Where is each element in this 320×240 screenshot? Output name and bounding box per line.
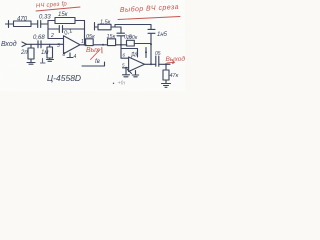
svg-text:fв: fв (95, 59, 100, 65)
power stub U2 (132, 71, 138, 77)
svg-text:Выход: Выход (166, 55, 186, 63)
feedback wires top row (48, 20, 85, 22)
svg-text:47к: 47к (170, 73, 179, 79)
resistor A (series, after U1) (86, 39, 94, 46)
svg-text:100к: 100к (127, 35, 138, 41)
riser to U2 inverting input (121, 45, 129, 58)
svg-text:4: 4 (74, 54, 77, 60)
wire to output (159, 63, 170, 65)
inner loop wire (122, 49, 138, 58)
ground (output) (162, 80, 171, 87)
op-amp U2 (129, 57, 145, 72)
svg-text:1: 1 (81, 39, 84, 45)
svg-text:Ц-4558D: Ц-4558D (47, 73, 81, 83)
resistor to ground (input shunt) (28, 48, 34, 59)
svg-text:15к: 15к (58, 12, 69, 18)
svg-text:470: 470 (17, 17, 28, 23)
svg-text:0,33: 0,33 (39, 15, 51, 21)
svg-text:0,68: 0,68 (33, 35, 45, 41)
power stub above U2 apex (145, 48, 147, 58)
node riser (inverting input column) (48, 21, 64, 39)
output wire U2 (145, 63, 156, 65)
svg-text:05к: 05к (86, 34, 95, 40)
bottom rail (82, 62, 105, 66)
resistor 15к (feedback) (55, 18, 75, 24)
capacitor (parallel with 15к) (48, 26, 85, 33)
red underline (top-left) (36, 7, 80, 11)
svg-text:2п: 2п (20, 50, 28, 56)
red tick after Вых (101, 48, 103, 54)
svg-text:1,5к: 1,5к (100, 20, 111, 26)
feedback top wire (1н5 branch) (115, 25, 151, 30)
capacitor 0,5 (vertical) (117, 33, 125, 45)
svg-text:1м: 1м (41, 50, 48, 56)
pin 5 wire (123, 67, 129, 69)
red slash (91, 50, 101, 60)
resistor 47к (output shunt) (165, 64, 167, 70)
wire (31, 23, 38, 25)
ground (pin 5) (123, 68, 130, 77)
resistor 1м (bias shunt) (47, 47, 53, 58)
node terminal (left of R 470) (6, 21, 14, 28)
wire and riser to cap (111, 27, 121, 33)
svg-text:8: 8 (63, 52, 66, 58)
svg-text:Вых: Вых (86, 47, 100, 54)
feedback right riser (84, 21, 86, 46)
ground (bias shunt) (47, 58, 54, 61)
wire (93, 44, 107, 46)
svg-text:2: 2 (50, 33, 54, 39)
stray dot (113, 83, 114, 84)
output wire of U1 (80, 44, 86, 46)
resistor 470 (14, 21, 32, 27)
capacitor 1н5 (148, 29, 155, 64)
paper background (0, 0, 185, 91)
input wire (27, 43, 64, 45)
capacitor 0,33 (38, 21, 41, 28)
ground (input shunt) (27, 59, 35, 64)
red arrow under Выход (167, 61, 175, 64)
stray marks (41, 59, 46, 64)
svg-text:Вход: Вход (1, 40, 17, 48)
svg-text:15к: 15к (107, 34, 116, 40)
terminal bar (branch of 1,5к row) (95, 23, 99, 31)
stray tick (128, 70, 132, 74)
svg-text:05: 05 (155, 51, 161, 57)
resistor 100к (feedback) (127, 40, 135, 46)
red underline (top-right) (118, 17, 180, 20)
capacitor 0,5 output (156, 56, 159, 66)
capacitor 0,68 (series input) (38, 41, 41, 48)
op-amp U1 (64, 36, 81, 54)
svg-text:+fн: +fн (118, 81, 126, 87)
wire to feedback node (41, 23, 48, 25)
feedback wire to output riser (134, 43, 151, 45)
input arrow (22, 42, 27, 47)
resistor B (series) (108, 39, 116, 46)
resistor 1,5к (98, 24, 111, 30)
svg-text:1н5: 1н5 (157, 32, 168, 38)
wire (116, 44, 127, 46)
